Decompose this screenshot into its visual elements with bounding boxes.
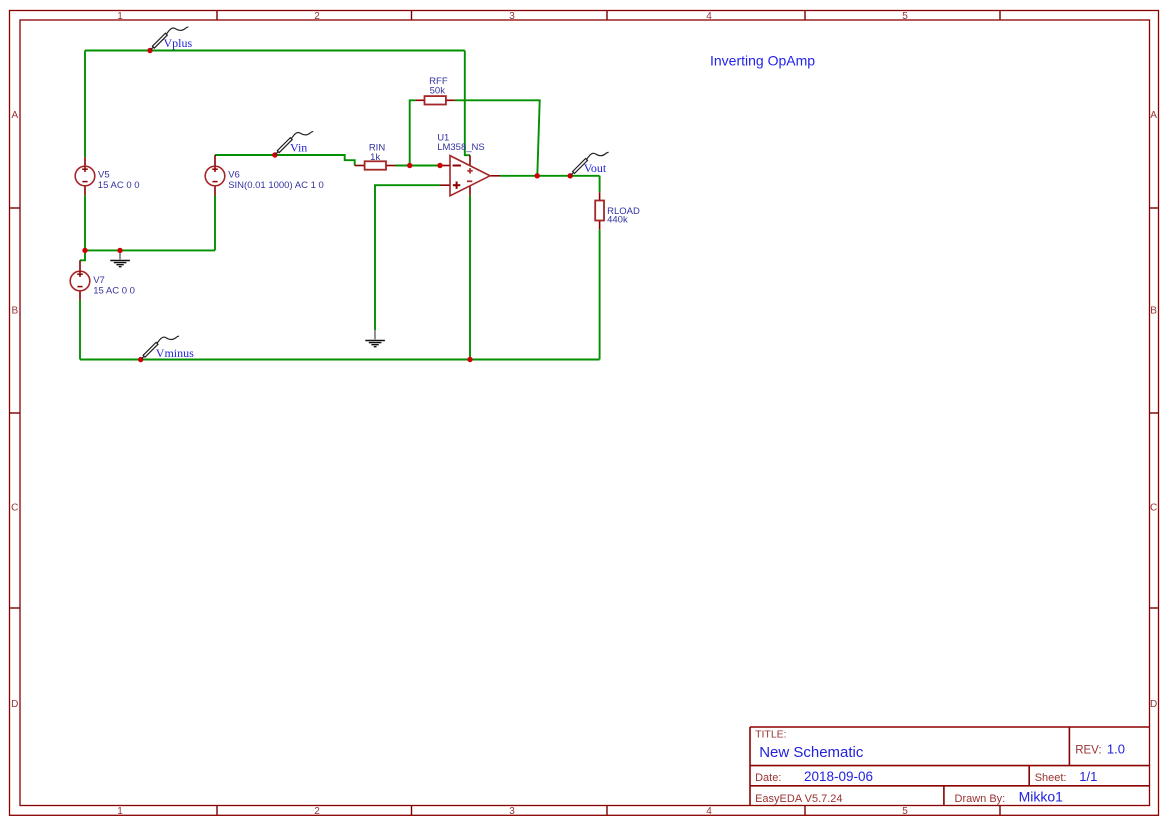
wire output down to RLOAD — [599, 176, 601, 192]
svg-text:Mikko1: Mikko1 — [1019, 789, 1064, 805]
node inverting input junction — [437, 163, 442, 168]
wire V5 top vertical — [84, 51, 86, 158]
svg-text:50k: 50k — [430, 86, 446, 97]
svg-text:Vplus: Vplus — [164, 36, 193, 50]
svg-text:1/1: 1/1 — [1079, 769, 1097, 784]
svg-text:C: C — [1150, 503, 1157, 514]
svg-text:B: B — [1150, 305, 1157, 316]
ground (mid rail) — [110, 250, 130, 266]
wire mid ground rail — [85, 249, 215, 251]
svg-text:TITLE:: TITLE: — [755, 729, 787, 741]
node V- rail junction — [467, 357, 472, 362]
title block text — [755, 729, 1102, 805]
node V5/V7 junction — [82, 248, 87, 253]
resistor RFF — [416, 76, 455, 105]
svg-text:5: 5 — [902, 11, 908, 22]
svg-text:3: 3 — [509, 11, 515, 22]
svg-text:15 AC 0 0: 15 AC 0 0 — [93, 285, 135, 296]
svg-text:Vin: Vin — [290, 141, 307, 155]
svg-text:EasyEDA V5.7.24: EasyEDA V5.7.24 — [755, 793, 842, 805]
node mid-rail ground junction — [117, 248, 122, 253]
wire output horizontal — [500, 175, 600, 177]
svg-text:4: 4 — [706, 806, 712, 817]
svg-text:V5: V5 — [98, 169, 110, 180]
wire jog to V7 — [80, 250, 85, 260]
wire opamp V- down to bottom rail — [469, 195, 471, 359]
wire Vminus bottom rail — [80, 359, 600, 361]
svg-text:SIN(0.01 1000) AC 1 0: SIN(0.01 1000) AC 1 0 — [228, 180, 324, 191]
svg-text:2018-09-06: 2018-09-06 — [804, 769, 873, 784]
node Vout junction — [568, 173, 573, 178]
svg-text:440k: 440k — [607, 215, 628, 226]
net flag Vminus — [142, 336, 180, 359]
net flag Vout — [571, 152, 609, 175]
svg-text:Drawn By:: Drawn By: — [955, 793, 1006, 805]
svg-text:4: 4 — [706, 11, 712, 22]
svg-text:New Schematic: New Schematic — [759, 744, 864, 761]
node feedback/output junction — [535, 173, 540, 178]
ground (noninverting input) — [365, 330, 385, 347]
voltage source V5 — [84, 157, 86, 195]
svg-text:1: 1 — [117, 11, 123, 22]
svg-text:V6: V6 — [228, 169, 240, 180]
svg-text:D: D — [1150, 699, 1157, 710]
wire V6 bottom to mid rail — [214, 196, 216, 251]
title block lines — [750, 727, 1150, 806]
svg-text:15 AC 0 0: 15 AC 0 0 — [98, 180, 140, 191]
op-amp U1 — [437, 132, 500, 195]
svg-text:1: 1 — [117, 806, 123, 817]
voltage source V6 — [214, 155, 216, 196]
resistor RLOAD — [595, 192, 640, 230]
net flag Vin — [276, 132, 314, 155]
resistor RIN — [355, 143, 396, 170]
wire Vin horizontal — [215, 155, 355, 166]
svg-text:1.0: 1.0 — [1107, 742, 1125, 757]
svg-text:A: A — [11, 110, 18, 121]
svg-text:Inverting OpAmp: Inverting OpAmp — [710, 53, 815, 69]
wire RIN out to opamp — [396, 165, 441, 167]
wire Vplus top rail — [85, 50, 465, 52]
net flag Vplus — [151, 27, 189, 50]
svg-text:D: D — [11, 699, 18, 710]
svg-text:B: B — [11, 305, 18, 316]
wire RFF left branch — [410, 100, 416, 165]
wire RFF right to output — [455, 100, 540, 176]
svg-text:LM358_NS: LM358_NS — [437, 142, 485, 153]
node Vin junction — [272, 152, 277, 157]
svg-text:C: C — [11, 503, 18, 514]
wire noninverting input to ground — [375, 185, 440, 330]
svg-text:Date:: Date: — [755, 772, 781, 784]
svg-text:2: 2 — [314, 11, 320, 22]
svg-text:Vout: Vout — [584, 161, 607, 175]
node Vminus junction — [138, 357, 143, 362]
wire V5 bottom to mid rail — [84, 195, 86, 250]
voltage source V7 — [79, 260, 81, 300]
wire Vplus to opamp V+ — [465, 51, 470, 156]
node RIN/RFF junction — [407, 163, 412, 168]
svg-text:Sheet:: Sheet: — [1035, 772, 1067, 784]
wire V7 bottom vertical — [79, 300, 81, 359]
node Vplus junction — [147, 48, 152, 53]
svg-text:A: A — [1150, 110, 1157, 121]
svg-text:3: 3 — [509, 806, 515, 817]
svg-text:1k: 1k — [370, 152, 380, 163]
svg-text:REV:: REV: — [1075, 745, 1101, 757]
wire RLOAD bottom vertical — [599, 230, 601, 360]
svg-text:2: 2 — [314, 806, 320, 817]
svg-text:Vminus: Vminus — [156, 346, 194, 360]
svg-text:5: 5 — [902, 806, 908, 817]
